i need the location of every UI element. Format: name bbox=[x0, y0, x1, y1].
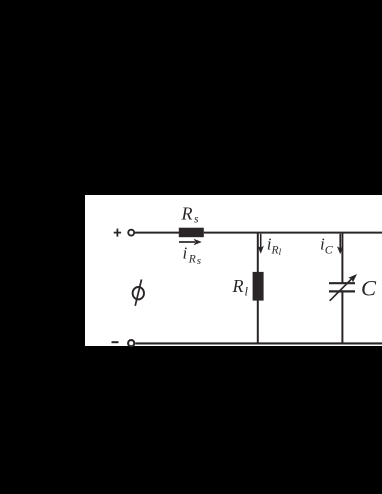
wire top rail left segment bbox=[135, 232, 179, 234]
node + (plus terminal label) bbox=[114, 229, 121, 237]
white schematic panel bbox=[85, 195, 382, 346]
resistor R_s (solid box) bbox=[179, 228, 204, 238]
wire bottom rail bbox=[135, 342, 382, 344]
wire R_l branch vertical bbox=[257, 233, 259, 344]
node bottom terminal circle bbox=[128, 340, 134, 346]
wire C branch upper bbox=[341, 233, 343, 283]
svg-text:C: C bbox=[361, 276, 377, 301]
wire top rail right segment bbox=[204, 232, 382, 234]
arrow current direction through R_s bbox=[179, 239, 202, 245]
node minus terminal label bbox=[112, 341, 119, 343]
capacitor C plates bbox=[329, 283, 355, 291]
capacitor variable arrow bbox=[330, 274, 357, 301]
node top terminal circle bbox=[128, 230, 134, 236]
resistor R_l (solid box) bbox=[253, 272, 264, 301]
arrow i_Rl current bbox=[258, 234, 264, 254]
arrow i_C current bbox=[337, 234, 343, 254]
label phi (node potential) bbox=[133, 280, 144, 306]
wire C branch lower bbox=[341, 291, 343, 343]
